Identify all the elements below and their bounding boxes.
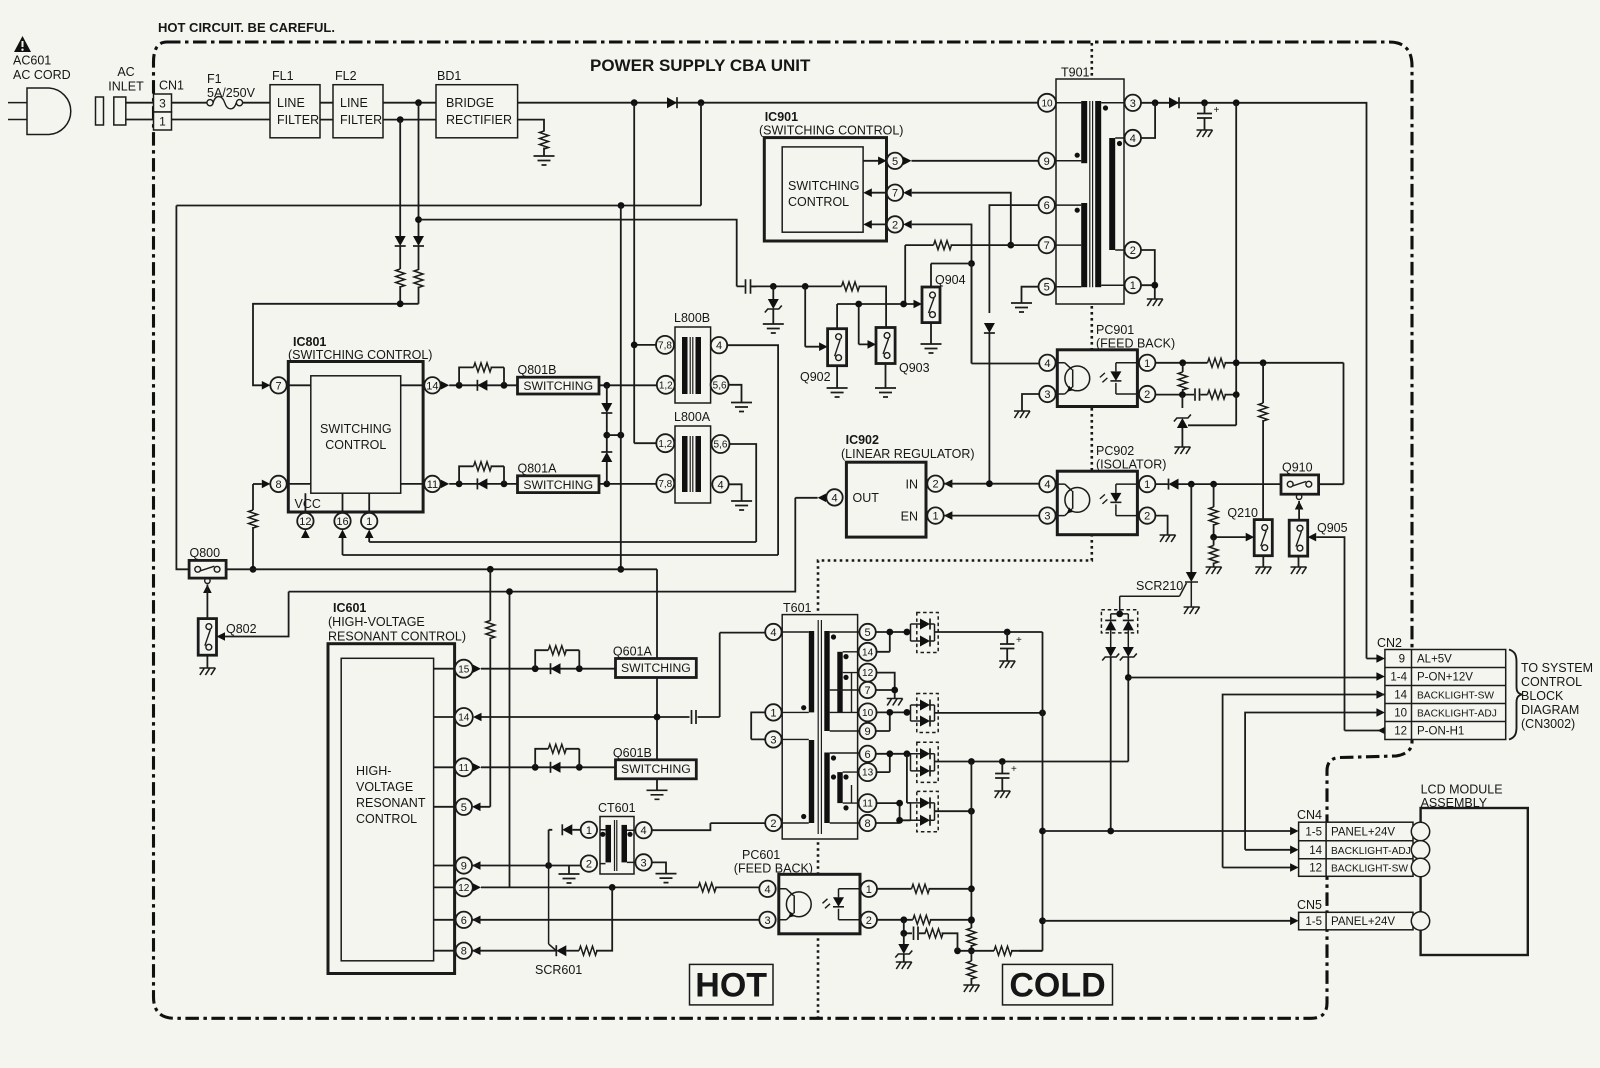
svg-text:5: 5	[865, 627, 871, 639]
arrow	[1290, 827, 1299, 836]
capacitor (polarized) at rail	[1197, 103, 1220, 130]
ground	[994, 791, 1010, 798]
CT601 pin 2	[581, 855, 597, 871]
L800B pin 1,2	[657, 376, 675, 394]
wire +24V bus	[1020, 632, 1043, 951]
junction	[886, 629, 893, 636]
IC902 pin 4 OUT	[826, 489, 842, 505]
svg-text:BD1: BD1	[437, 69, 461, 83]
wire PC601 pin1 row	[877, 888, 971, 890]
arrow	[1290, 846, 1299, 855]
resistor	[1208, 390, 1226, 399]
PC601 pin 4	[759, 881, 775, 897]
arrow	[914, 300, 923, 309]
arrow	[338, 530, 347, 539]
junction	[968, 947, 975, 954]
diode	[1169, 97, 1179, 108]
svg-text:FILTER: FILTER	[340, 113, 382, 127]
ground	[559, 874, 580, 883]
ground	[1174, 447, 1190, 454]
svg-text:7,8: 7,8	[658, 479, 672, 490]
capacitor (polarized)	[995, 762, 1017, 792]
label T601	[783, 601, 812, 615]
resistor	[579, 946, 597, 955]
svg-text:3: 3	[770, 734, 776, 746]
junction	[1210, 534, 1217, 541]
warning triangle	[14, 36, 31, 52]
svg-text:4: 4	[831, 492, 837, 504]
svg-text:LINE: LINE	[340, 96, 368, 110]
svg-text:2: 2	[932, 479, 938, 491]
wire bypass loop	[459, 466, 504, 484]
wire Q902 base feed	[805, 286, 819, 346]
transformer T901	[1056, 79, 1124, 304]
IC801 pin 11	[424, 476, 440, 492]
svg-text:6: 6	[865, 749, 871, 761]
svg-text:AC601: AC601	[13, 54, 51, 68]
junction	[986, 480, 993, 487]
svg-text:(CN3002): (CN3002)	[1521, 717, 1575, 731]
wire	[418, 287, 420, 304]
svg-text:12: 12	[1394, 726, 1407, 738]
svg-text:SWITCHING: SWITCHING	[523, 379, 593, 393]
IC601 labels	[328, 601, 466, 644]
junction	[1116, 611, 1123, 618]
wire	[399, 286, 401, 304]
junction	[397, 116, 404, 123]
AC inlet	[114, 97, 126, 125]
resistor	[548, 744, 566, 753]
capacitor	[692, 710, 697, 724]
arrow	[1308, 533, 1317, 542]
arrow	[944, 479, 953, 488]
svg-text:1-5: 1-5	[1305, 827, 1322, 839]
PC901 pin 2	[1139, 386, 1155, 402]
svg-text:7: 7	[275, 380, 281, 392]
T601 pin 10	[859, 703, 877, 721]
svg-text:+: +	[1011, 764, 1017, 775]
diode (rail)	[667, 97, 677, 108]
transistor Q802	[198, 619, 216, 656]
junction	[968, 758, 975, 765]
L800B pin 5,6	[711, 376, 729, 394]
wire SCR601 to pin12 rail	[596, 887, 612, 950]
resistor	[967, 951, 976, 985]
junction	[603, 382, 610, 389]
label Q801A	[518, 462, 558, 476]
thyristor pair	[1102, 647, 1137, 831]
diode pack D3	[911, 742, 939, 782]
svg-text:12: 12	[458, 883, 470, 894]
junction	[250, 566, 257, 573]
wire FL1-FL2	[320, 103, 333, 120]
connector CN4	[1299, 822, 1413, 876]
arrow	[903, 188, 912, 197]
arrow	[1246, 533, 1255, 542]
svg-text:BACKLIGHT-ADJ: BACKLIGHT-ADJ	[1331, 846, 1411, 857]
wire IC801 pin8 feed	[253, 483, 262, 485]
arrow	[472, 803, 481, 812]
junction	[654, 714, 661, 721]
svg-text:EN: EN	[901, 510, 918, 524]
CT601 pin 4	[635, 822, 651, 838]
svg-text:14: 14	[426, 380, 438, 392]
svg-text:BLOCK: BLOCK	[1521, 689, 1564, 703]
wire BD1 lower out to bleeder	[518, 120, 544, 132]
label CN5	[1297, 898, 1322, 912]
svg-text:2: 2	[1130, 245, 1136, 257]
svg-text:HOT: HOT	[695, 967, 767, 1005]
wire pin7 row	[905, 245, 1038, 304]
svg-text:4: 4	[1130, 133, 1136, 145]
svg-text:PC601: PC601	[742, 848, 780, 862]
junction	[456, 481, 463, 488]
junction	[532, 764, 539, 771]
svg-text:Q902: Q902	[800, 370, 831, 384]
wire PC601 pin2 row	[877, 919, 971, 921]
wire Q210 emitter	[1262, 556, 1264, 567]
IC601 pin 9	[456, 857, 472, 873]
junction	[609, 884, 616, 891]
junction	[904, 629, 911, 636]
junction	[487, 566, 494, 573]
PC601 labels	[734, 848, 813, 876]
junction	[1151, 282, 1158, 289]
connector CN2	[1385, 650, 1506, 740]
label LCD MODULE ASSEMBLY	[1421, 783, 1503, 811]
junction	[456, 382, 463, 389]
svg-text:Q905: Q905	[1317, 521, 1348, 535]
wire zener loop	[1188, 395, 1236, 426]
PC901 pin 4	[1039, 355, 1055, 371]
diode pack (SCR210 gate pair)	[1101, 610, 1137, 647]
junction	[545, 862, 552, 869]
wire CT601 pin3 ground	[652, 862, 666, 873]
wire	[418, 246, 420, 270]
svg-text:14: 14	[1309, 845, 1322, 857]
wire to CN2 1-4	[1128, 677, 1379, 679]
CT601 pin 1	[581, 822, 597, 838]
svg-text:4: 4	[641, 825, 647, 837]
wire rail-C to IC601 pin12 riser	[509, 592, 511, 888]
resistor	[1208, 358, 1226, 367]
wire CN2-14 to CN4-12 (BACKLIGHT-SW)	[1223, 695, 1385, 868]
svg-text:Q801B: Q801B	[518, 363, 557, 377]
svg-text:2: 2	[770, 818, 776, 830]
svg-text:7,8: 7,8	[658, 341, 672, 352]
wire pin6/13 in	[876, 754, 911, 772]
svg-text:2: 2	[1144, 389, 1150, 401]
label AC601 AC CORD	[13, 54, 71, 83]
svg-text:PC902: PC902	[1096, 444, 1134, 458]
junction	[1007, 242, 1014, 249]
resistor	[1209, 537, 1218, 567]
svg-text:CONTROL: CONTROL	[356, 812, 417, 826]
svg-text:4: 4	[764, 884, 770, 896]
transformer T601	[782, 615, 859, 839]
T601 pin 3	[765, 731, 781, 747]
svg-text:3: 3	[1044, 511, 1050, 523]
wire PC901 pin2 row	[1155, 394, 1236, 396]
arrow	[262, 480, 271, 489]
label Q802	[226, 622, 257, 636]
wire D2 out	[935, 712, 1043, 714]
transistor Q903	[876, 328, 895, 364]
wire pin2 net to cap	[419, 220, 745, 287]
resistor	[249, 510, 258, 528]
wire	[399, 120, 401, 237]
ground	[1184, 607, 1200, 614]
wire IN pin2 row	[944, 483, 1039, 485]
label Q800	[190, 546, 221, 560]
svg-text:5: 5	[1044, 282, 1050, 294]
T601 pin 13	[859, 763, 877, 781]
T901 pin 5	[1039, 279, 1055, 295]
junction	[900, 301, 907, 308]
svg-text:POWER SUPPLY CBA UNIT: POWER SUPPLY CBA UNIT	[590, 56, 811, 75]
junction	[1233, 359, 1240, 366]
label F1 5A/250V	[207, 72, 256, 100]
wire D1 out	[935, 631, 1043, 633]
transistor Q601B	[616, 760, 697, 779]
svg-text:11: 11	[862, 799, 873, 810]
diode T901 pin6 branch	[984, 323, 995, 333]
wire pin8 row	[472, 950, 556, 952]
PC902 pin 3	[1039, 507, 1055, 523]
wire Q800 collector rail	[226, 569, 657, 790]
arrow	[473, 664, 482, 673]
PC902 pin 1	[1139, 476, 1155, 492]
ground	[827, 388, 848, 397]
arrow	[863, 188, 872, 197]
svg-text:INLET: INLET	[108, 80, 144, 94]
ground	[1160, 535, 1176, 542]
IC902 labels	[841, 433, 975, 461]
wire Q904 emitter	[930, 323, 932, 344]
diode pack D2	[907, 694, 938, 733]
svg-text:RESONANT: RESONANT	[356, 796, 426, 810]
wire riser x634	[634, 103, 656, 444]
svg-text:15: 15	[458, 664, 470, 675]
junction	[886, 709, 893, 716]
wire PC902 pin1 row	[1155, 483, 1281, 485]
wire Q802 base wire / rail C	[225, 498, 818, 637]
transistor Q800 (relay/switch)	[189, 560, 226, 578]
junction	[1188, 481, 1195, 488]
IC601 pin 12	[455, 878, 473, 896]
svg-text:BACKLIGHT-SW: BACKLIGHT-SW	[1417, 691, 1494, 702]
arrow	[903, 220, 912, 229]
svg-text:+: +	[1016, 635, 1022, 646]
inductor L800B	[675, 327, 711, 403]
wire pin10/9 in	[876, 712, 907, 731]
arrow	[903, 157, 912, 166]
arrow	[472, 916, 481, 925]
T601 pin 7	[859, 682, 875, 698]
T601 pin 5	[859, 624, 875, 640]
svg-text:DIAGRAM: DIAGRAM	[1521, 703, 1579, 717]
junction	[603, 432, 610, 439]
ground	[1014, 411, 1030, 418]
svg-text:AC: AC	[117, 65, 134, 79]
svg-text:(SWITCHING CONTROL): (SWITCHING CONTROL)	[288, 348, 432, 362]
svg-text:4: 4	[1044, 358, 1050, 370]
IC801 pin 14	[424, 377, 440, 393]
label SCR210	[1136, 579, 1183, 593]
wire pin11/8 in	[876, 754, 911, 823]
svg-text:PC901: PC901	[1096, 323, 1134, 337]
ground	[1255, 567, 1271, 574]
svg-text:12: 12	[299, 516, 311, 528]
junction	[631, 342, 638, 349]
IC901 pin 5	[887, 153, 903, 169]
ground	[921, 344, 942, 353]
svg-text:RECTIFIER: RECTIFIER	[446, 113, 512, 127]
svg-text:9: 9	[1399, 654, 1405, 666]
diode	[1169, 479, 1179, 490]
optocoupler PC901	[1057, 350, 1137, 407]
zener diode	[1174, 395, 1191, 447]
T901 pin 6	[1039, 197, 1055, 213]
diode pack D1	[907, 613, 938, 653]
filter FL2	[333, 69, 383, 138]
IC902 pin 1 EN	[927, 507, 943, 523]
svg-text:10: 10	[1394, 708, 1407, 720]
svg-text:FL1: FL1	[272, 69, 294, 83]
label Q903	[899, 361, 930, 375]
svg-text:SWITCHING: SWITCHING	[621, 762, 691, 776]
svg-text:(SWITCHING CONTROL): (SWITCHING CONTROL)	[759, 124, 903, 138]
title POWER SUPPLY CBA UNIT	[590, 56, 811, 75]
svg-text:1,2: 1,2	[658, 439, 672, 450]
svg-text:VOLTAGE: VOLTAGE	[356, 780, 413, 794]
svg-text:4: 4	[717, 479, 723, 491]
svg-text:+: +	[1214, 105, 1220, 116]
svg-text:IC901: IC901	[765, 110, 798, 124]
svg-text:FL2: FL2	[335, 69, 357, 83]
svg-text:IC801: IC801	[293, 335, 326, 349]
svg-text:AL+5V: AL+5V	[1417, 654, 1452, 666]
junction	[1233, 391, 1240, 398]
svg-text:CONTROL: CONTROL	[1521, 675, 1582, 689]
svg-text:COLD: COLD	[1009, 967, 1105, 1005]
junction	[968, 260, 975, 267]
svg-text:Q904: Q904	[935, 273, 966, 287]
label Q601B	[613, 746, 652, 760]
svg-text:T601: T601	[783, 601, 812, 615]
diode	[562, 824, 572, 835]
svg-text:LCD MODULE: LCD MODULE	[1421, 783, 1503, 797]
arrow	[1290, 863, 1299, 872]
arrow	[1376, 672, 1385, 681]
arrow	[1295, 501, 1304, 510]
svg-text:Q910: Q910	[1282, 461, 1313, 475]
svg-text:FILTER: FILTER	[277, 113, 319, 127]
svg-text:8: 8	[461, 946, 467, 958]
zener diode	[895, 933, 912, 962]
arrow	[1290, 917, 1299, 926]
junction	[415, 99, 422, 106]
resistor	[925, 929, 943, 938]
wire pin8 riser	[252, 484, 254, 510]
wire pin14 row	[449, 384, 517, 386]
diode	[551, 663, 561, 674]
wire FL2 to BD1 (live)	[383, 102, 436, 104]
wire bypass loop	[459, 367, 504, 385]
svg-text:4: 4	[716, 340, 722, 352]
resistor (bleeder)	[540, 131, 549, 149]
IC901 pin 2	[887, 216, 903, 232]
diode	[477, 380, 487, 391]
arrow	[217, 632, 226, 641]
diode	[601, 403, 612, 413]
svg-text:HOT CIRCUIT. BE CAREFUL.: HOT CIRCUIT. BE CAREFUL.	[158, 20, 335, 35]
wire snubber branch A	[418, 103, 420, 237]
capacitor	[914, 927, 919, 941]
svg-text:7: 7	[892, 188, 898, 200]
junction	[1233, 99, 1240, 106]
svg-text:14: 14	[862, 647, 874, 658]
wire	[543, 148, 545, 157]
svg-text:TO SYSTEM: TO SYSTEM	[1521, 661, 1593, 675]
wire CN2-10 to CN4-14 (BACKLIGHT-ADJ)	[1245, 713, 1381, 850]
arrow	[819, 342, 828, 351]
capacitor (polarized)	[1000, 632, 1022, 661]
IC902 pin 2 IN	[927, 476, 943, 492]
svg-text:BACKLIGHT-SW: BACKLIGHT-SW	[1331, 864, 1408, 875]
PC601 pin 1	[861, 881, 877, 897]
junction	[631, 99, 638, 106]
svg-text:SWITCHING: SWITCHING	[621, 661, 691, 675]
wire Q904 collector	[931, 264, 972, 288]
wire inlet to CN1	[126, 103, 154, 120]
brace	[1509, 650, 1522, 740]
svg-text:5,6: 5,6	[713, 380, 727, 391]
label AC INLET	[108, 65, 144, 94]
diode pack D4	[911, 791, 939, 831]
svg-text:7: 7	[865, 685, 871, 697]
svg-text:Q601B: Q601B	[613, 746, 652, 760]
junction	[968, 808, 975, 815]
zener diode	[765, 286, 782, 324]
svg-text:T901: T901	[1061, 66, 1090, 80]
wire	[606, 462, 608, 484]
IC902 (linear regulator)	[846, 462, 926, 537]
svg-text:1: 1	[586, 825, 592, 837]
wire riser x621	[620, 206, 622, 570]
wire	[252, 527, 254, 569]
resistor	[913, 915, 931, 924]
arrow	[473, 883, 482, 892]
svg-text:11: 11	[459, 763, 470, 774]
svg-text:(HIGH-VOLTAGE: (HIGH-VOLTAGE	[328, 615, 425, 629]
svg-text:LINE: LINE	[277, 96, 305, 110]
IC901 labels	[759, 110, 903, 138]
wire L800A 4 to ground	[729, 484, 742, 501]
wire	[752, 285, 806, 287]
IC601 pin 14	[455, 708, 473, 726]
svg-text:IN: IN	[906, 478, 919, 492]
arrow	[365, 530, 374, 539]
Q800 base node	[205, 578, 210, 583]
junction	[1260, 359, 1267, 366]
junction	[900, 916, 907, 923]
ground	[656, 874, 677, 883]
transistor Q210	[1254, 520, 1272, 556]
LCD module assembly box	[1421, 808, 1528, 955]
junction	[1201, 99, 1208, 106]
wire CN5 rail	[1043, 920, 1297, 922]
